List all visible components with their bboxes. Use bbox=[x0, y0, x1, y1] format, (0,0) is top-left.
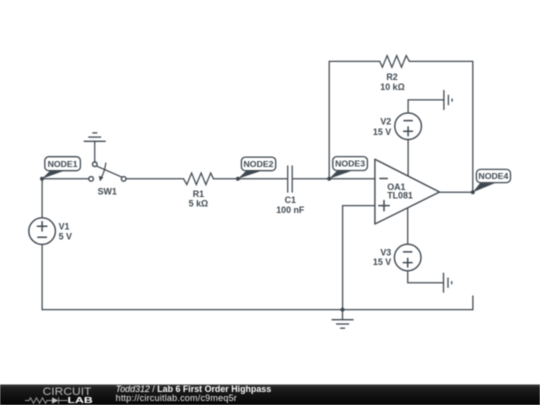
svg-text:LAB: LAB bbox=[68, 395, 93, 405]
svg-text:5 kΩ: 5 kΩ bbox=[189, 199, 208, 209]
svg-text:NODE3: NODE3 bbox=[335, 159, 365, 169]
svg-text:NODE2: NODE2 bbox=[244, 159, 274, 169]
svg-text:5 V: 5 V bbox=[59, 232, 72, 242]
svg-text:http://circuitlab.com/c9meq5r: http://circuitlab.com/c9meq5r bbox=[116, 393, 237, 403]
svg-text:C1: C1 bbox=[285, 195, 296, 205]
svg-text:V2: V2 bbox=[380, 116, 391, 126]
svg-text:R1: R1 bbox=[193, 189, 204, 199]
svg-text:R2: R2 bbox=[386, 72, 397, 82]
svg-text:15 V: 15 V bbox=[373, 127, 391, 137]
svg-text:V3: V3 bbox=[380, 247, 391, 257]
svg-text:SW1: SW1 bbox=[98, 186, 117, 196]
svg-text:10 kΩ: 10 kΩ bbox=[380, 82, 404, 92]
svg-text:NODE1: NODE1 bbox=[48, 159, 78, 169]
svg-text:15 V: 15 V bbox=[373, 257, 391, 267]
svg-text:V1: V1 bbox=[59, 221, 70, 231]
svg-text:100 nF: 100 nF bbox=[276, 205, 305, 215]
svg-text:TL081: TL081 bbox=[387, 190, 413, 200]
svg-text:NODE4: NODE4 bbox=[478, 171, 508, 181]
